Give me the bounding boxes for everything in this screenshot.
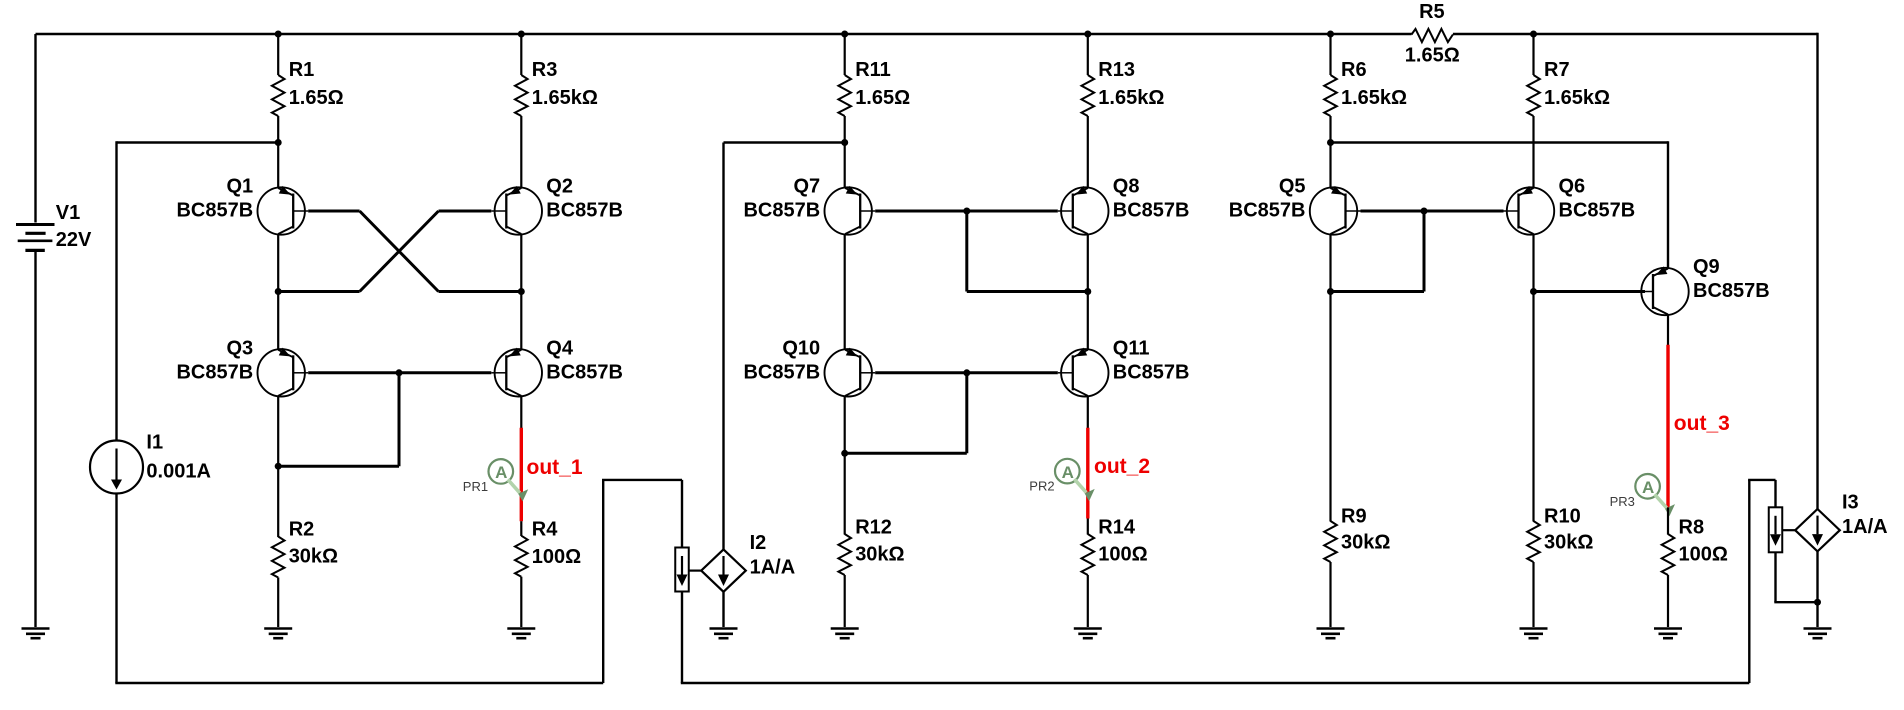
resistor R7 [1532, 34, 1534, 75]
svg-text:BC857B: BC857B [1693, 280, 1770, 302]
svg-text:R2: R2 [289, 519, 315, 541]
wire I1 bottom loop [115, 494, 117, 684]
svg-text:30kΩ: 30kΩ [855, 544, 904, 566]
controlled source I3 1A/A [1795, 509, 1840, 551]
wire Q9 base [1534, 290, 1646, 293]
ground R4 [507, 627, 535, 630]
battery V1 [34, 34, 36, 223]
wire Q5/Q6 base interconnect [1361, 210, 1504, 213]
svg-text:Q7: Q7 [794, 176, 821, 198]
ammeter probe PR2 [1055, 459, 1080, 484]
svg-text:BC857B: BC857B [1229, 200, 1306, 222]
svg-text:R12: R12 [855, 517, 892, 539]
wire Q8 emitter down [1087, 235, 1089, 350]
transistor Q3 [258, 349, 305, 396]
ground R10 [1520, 627, 1548, 630]
wire Q10 emitter down [844, 396, 846, 534]
resistor R4 [520, 521, 522, 536]
wire Q10/Q11 base interconnect [875, 371, 1058, 374]
wire Q2 emitter down [520, 235, 522, 292]
svg-text:R5: R5 [1419, 1, 1445, 23]
svg-text:BC857B: BC857B [176, 200, 253, 222]
svg-text:R6: R6 [1341, 59, 1367, 81]
svg-text:out_1: out_1 [527, 456, 583, 479]
wire I2 link [689, 569, 701, 571]
svg-text:1.65Ω: 1.65Ω [289, 87, 344, 109]
svg-text:1.65kΩ: 1.65kΩ [1098, 87, 1164, 109]
resistor R5 [1412, 29, 1453, 42]
svg-text:R4: R4 [532, 518, 558, 540]
svg-text:Q1: Q1 [227, 176, 254, 198]
ground I2 [710, 627, 738, 630]
svg-text:R3: R3 [532, 59, 558, 81]
svg-text:A: A [1642, 478, 1654, 497]
wire Q2-Q4 column [520, 292, 522, 350]
svg-text:out_3: out_3 [1674, 412, 1730, 435]
svg-text:Q5: Q5 [1279, 176, 1306, 198]
svg-text:Q8: Q8 [1113, 176, 1140, 198]
wire sense to bottom loop east [681, 592, 683, 684]
svg-text:PR3: PR3 [1610, 494, 1635, 509]
resistor R8 [1667, 508, 1669, 535]
transistor Q4 [495, 349, 542, 396]
resistor R14 [1087, 519, 1089, 535]
svg-text:R14: R14 [1098, 517, 1136, 539]
node Q5/Q6 base junction [1421, 208, 1428, 215]
svg-text:R13: R13 [1098, 59, 1135, 81]
svg-text:I3: I3 [1842, 492, 1859, 514]
wire right rail down to I3 [1816, 33, 1818, 509]
node Q10 emitter tap [841, 450, 848, 457]
svg-text:1.65kΩ: 1.65kΩ [1544, 87, 1610, 109]
wire Q7/Q8 base interconnect [875, 210, 1058, 213]
svg-text:100Ω: 100Ω [1098, 544, 1147, 566]
svg-text:1.65Ω: 1.65Ω [855, 87, 910, 109]
node Q3/Q4 base junction [396, 369, 403, 376]
current source I1 0.001A [90, 441, 143, 494]
transistor Q8 [1061, 187, 1108, 234]
wire Q11 emitter down [1087, 396, 1089, 428]
svg-text:Q10: Q10 [782, 337, 820, 359]
node Q2 emitter junction [518, 288, 525, 295]
transistor Q11 [1061, 349, 1108, 396]
node Q5 emitter tap [1327, 288, 1334, 295]
svg-text:R10: R10 [1544, 505, 1581, 527]
wire out_2 (red) [1086, 428, 1089, 519]
node R13 top junction [1084, 31, 1091, 38]
resistor R10 [1527, 521, 1540, 562]
svg-text:R11: R11 [855, 59, 891, 81]
wire out_3 (red) [1666, 345, 1669, 508]
transistor Q2 [495, 187, 542, 234]
ground R14 [1074, 627, 1102, 630]
node Q8 emitter tap [1084, 288, 1091, 295]
wire I2 bottom [722, 592, 724, 627]
node Q6 emitter tap (Q9 base) [1530, 288, 1537, 295]
transistor Q7 [825, 187, 872, 234]
wire Q4 emitter down [520, 396, 522, 428]
ground R9 [1317, 627, 1345, 630]
node Q1 emitter junction [275, 288, 282, 295]
resistor R9 [1324, 521, 1337, 562]
svg-text:BC857B: BC857B [1113, 200, 1190, 222]
svg-text:V1: V1 [56, 202, 80, 224]
transistor Q5 [1310, 187, 1357, 234]
svg-text:BC857B: BC857B [546, 200, 623, 222]
transistor Q6 [1507, 187, 1554, 234]
svg-text:30kΩ: 30kΩ [289, 546, 338, 568]
svg-text:0.001A: 0.001A [146, 460, 211, 482]
svg-text:I1: I1 [146, 432, 163, 454]
node R6 top junction [1327, 31, 1334, 38]
svg-text:22V: 22V [56, 229, 92, 251]
wire Q9 emitter down [1667, 315, 1669, 346]
ground R2 [264, 627, 292, 630]
svg-text:1A/A: 1A/A [750, 557, 796, 579]
wire Q3 emitter down [277, 396, 279, 537]
node Q7/Q8 base junction [963, 208, 970, 215]
svg-text:A: A [1062, 463, 1074, 482]
svg-text:BC857B: BC857B [1559, 200, 1636, 222]
svg-text:100Ω: 100Ω [532, 546, 581, 568]
transistor Q1 [258, 187, 305, 234]
svg-text:BC857B: BC857B [546, 361, 623, 383]
svg-text:Q6: Q6 [1559, 176, 1586, 198]
svg-text:Q11: Q11 [1113, 337, 1150, 359]
wire Q1 leads [277, 143, 279, 188]
resistor R11 [844, 34, 846, 75]
svg-text:1.65Ω: 1.65Ω [1405, 45, 1460, 67]
wire I3 bottom [1816, 551, 1818, 627]
svg-text:R9: R9 [1341, 505, 1367, 527]
ground R12 [831, 627, 859, 630]
svg-text:30kΩ: 30kΩ [1341, 531, 1390, 553]
svg-text:A: A [495, 463, 507, 482]
wire top power rail [36, 33, 1412, 35]
resistor R3 [520, 34, 522, 75]
resistor R13 [1087, 34, 1089, 75]
wire cross-coupling X stage1 [308, 210, 359, 213]
svg-text:BC857B: BC857B [743, 361, 820, 383]
wire Q5 leads [1329, 143, 1331, 188]
resistor R1 [277, 34, 279, 75]
current sense branch of I3 [1769, 507, 1783, 552]
svg-text:Q4: Q4 [546, 337, 574, 359]
svg-text:BC857B: BC857B [1113, 361, 1190, 383]
wire out_1 (red) [520, 428, 523, 521]
resistor R12 [838, 534, 851, 575]
svg-text:BC857B: BC857B [176, 361, 253, 383]
resistor R6 [1329, 34, 1331, 75]
node R6/Q5 junction [1327, 139, 1334, 146]
wire I2 top to stage2 [722, 143, 724, 550]
svg-text:1A/A: 1A/A [1842, 516, 1888, 538]
svg-text:PR1: PR1 [463, 479, 488, 494]
wire feedback stage1 to I1 [117, 141, 279, 143]
current sense branch of I2 [675, 548, 689, 592]
svg-text:Q9: Q9 [1693, 256, 1720, 278]
node R11/Q7 junction [841, 139, 848, 146]
svg-text:PR2: PR2 [1029, 479, 1054, 494]
node Q10/Q11 base junction [963, 369, 970, 376]
svg-text:100Ω: 100Ω [1679, 544, 1728, 566]
svg-text:R1: R1 [289, 59, 315, 81]
svg-text:30kΩ: 30kΩ [1544, 531, 1593, 553]
ammeter probe PR3 [1635, 474, 1660, 499]
svg-text:1.65kΩ: 1.65kΩ [1341, 87, 1407, 109]
resistor R2 [272, 537, 285, 578]
wire Q1-Q3 column [277, 292, 279, 350]
svg-text:Q3: Q3 [227, 337, 254, 359]
ammeter probe PR1 [489, 459, 514, 484]
node A (R1/Q1 collector node) [275, 139, 282, 146]
wire Q7 leads [844, 143, 846, 188]
wire Q5 emitter down [1329, 292, 1331, 522]
wire Q3/Q4 base interconnect [308, 371, 491, 374]
ground R8 [1654, 627, 1682, 630]
node R1 top junction [275, 31, 282, 38]
node Q3 emitter tap [275, 463, 282, 470]
svg-text:R8: R8 [1679, 517, 1705, 539]
svg-text:R7: R7 [1544, 59, 1570, 81]
ground V1 [22, 627, 50, 630]
wire I3 link [1782, 529, 1795, 531]
node R7 top junction [1530, 31, 1537, 38]
svg-text:BC857B: BC857B [743, 200, 820, 222]
svg-text:I2: I2 [750, 532, 767, 554]
svg-text:out_2: out_2 [1094, 455, 1150, 478]
svg-text:1.65kΩ: 1.65kΩ [532, 87, 598, 109]
svg-text:Q2: Q2 [546, 176, 573, 198]
transistor Q10 [825, 349, 872, 396]
node R11 top junction [841, 31, 848, 38]
wire Q6 emitter down [1532, 235, 1534, 522]
node R3 top junction [518, 31, 525, 38]
wire stage3 collector feedback to Q9 [1331, 141, 1669, 143]
node I3 bottom junction [1814, 599, 1821, 606]
controlled source I2 1A/A [701, 549, 746, 591]
transistor Q9 [1641, 268, 1688, 315]
ground I3 [1804, 627, 1832, 630]
wire sense3 to I3 bottom [1774, 552, 1776, 602]
